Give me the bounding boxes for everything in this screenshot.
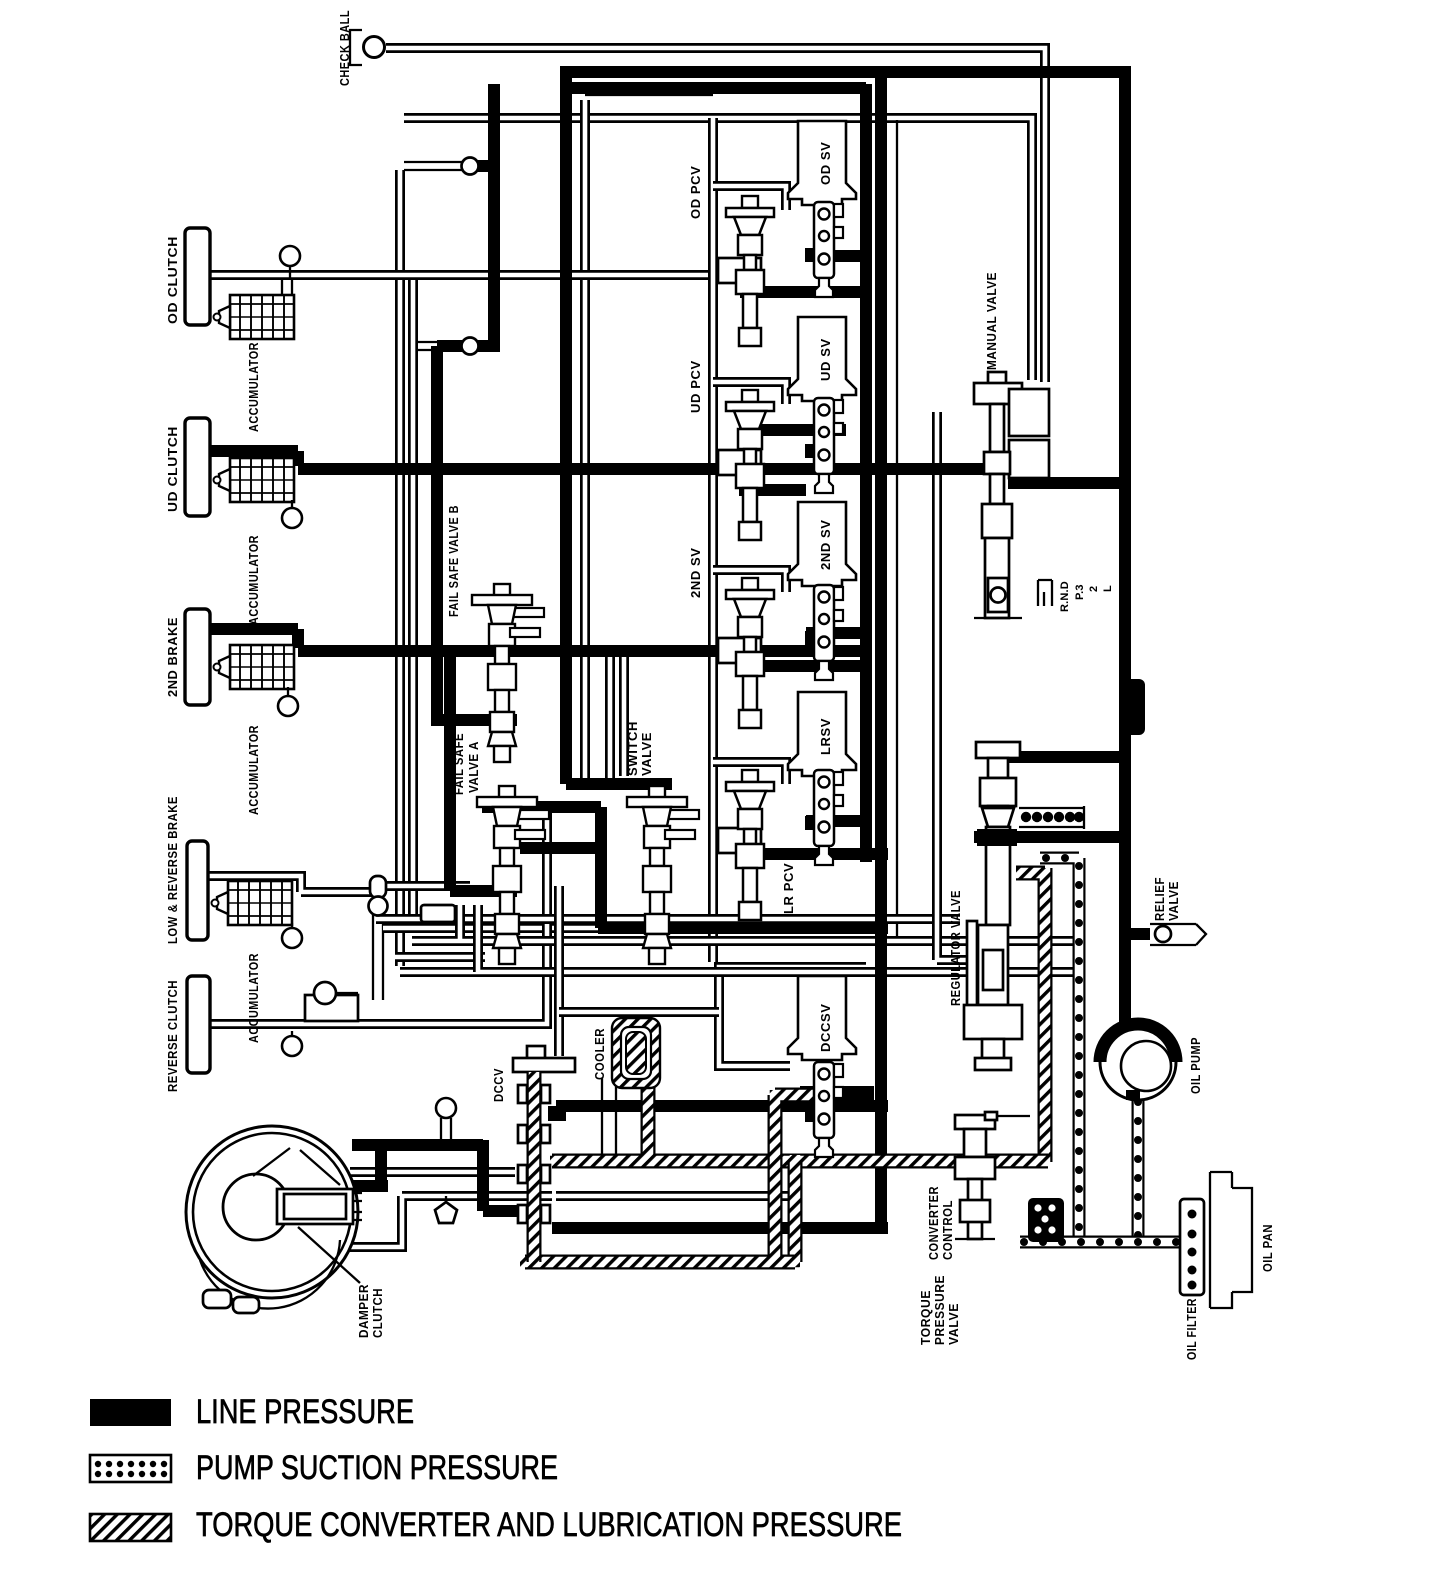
svg-text:CONVERTER: CONVERTER [926, 1186, 941, 1260]
switch valve [627, 786, 699, 964]
torque converter [186, 1126, 362, 1313]
wire: 2nd solenoid stub [806, 627, 868, 639]
clutch OD [185, 228, 210, 325]
low reverse spool under manual valve [976, 742, 1020, 830]
wire: 2ND row feed [713, 570, 786, 592]
wire: suction pump drop [1132, 1095, 1145, 1242]
svg-text:OIL FILTER: OIL FILTER [1184, 1298, 1199, 1360]
wire: fail safe A thick L [450, 885, 517, 897]
wire: switch frame b [619, 656, 629, 776]
svg-text:OIL PUMP: OIL PUMP [1188, 1037, 1203, 1094]
2nd solenoid valve 2ND SV [788, 502, 856, 586]
check valve ball OD [289, 266, 291, 280]
accumulator low reverse [212, 881, 293, 925]
svg-text:TORQUE: TORQUE [918, 1290, 933, 1345]
wire: solenoid column frame [708, 118, 718, 962]
wire: DCCSV line [556, 1100, 888, 1112]
svg-text:CLUTCH: CLUTCH [370, 1288, 385, 1338]
wire: bead line upper [404, 162, 462, 170]
check valve ball UD [291, 500, 293, 512]
svg-text:2ND BRAKE: 2ND BRAKE [165, 617, 180, 697]
od cell inlet box [718, 258, 761, 283]
wire: suction chamber [1028, 1198, 1064, 1242]
svg-text:VALVE: VALVE [639, 732, 654, 776]
wire: lr bead link [386, 881, 470, 891]
svg-text:2ND SV: 2ND SV [688, 547, 703, 598]
svg-text:OD CLUTCH: OD CLUTCH [165, 236, 180, 324]
wire: check ball line to manual valve [386, 48, 1045, 382]
accumulator reverse [305, 995, 358, 1021]
wire: lr branch to valve body [383, 923, 598, 933]
wire: DCCSV solenoid drop [794, 1093, 806, 1106]
svg-text:DCCV: DCCV [491, 1068, 506, 1102]
check valve ball low reverse [291, 923, 293, 930]
wire: lube bottom run [520, 1255, 800, 1270]
wire: mid trunk A [860, 84, 872, 862]
check ball [350, 30, 362, 65]
wire: OD pcv stub [740, 286, 868, 298]
2nd cell inlet box [718, 638, 761, 663]
wire: regulator riser [991, 795, 1003, 834]
wire: vessel interior line [556, 1191, 788, 1201]
wire: left vertical pipe pair P1 [400, 170, 625, 972]
svg-text:UD SV: UD SV [818, 338, 833, 381]
svg-text:ACCUMULATOR: ACCUMULATOR [246, 342, 261, 432]
svg-text:2: 2 [1088, 586, 1100, 592]
wire: mid trunk B [875, 72, 887, 862]
svg-text:LOW & REVERSE BRAKE: LOW & REVERSE BRAKE [165, 796, 180, 944]
wire: UD row feed [713, 382, 786, 404]
wire: converter nose link [346, 1145, 388, 1186]
wire: OD solenoid stub [806, 250, 868, 262]
bead junction lower [462, 338, 479, 355]
fail safe valve A [477, 786, 549, 964]
svg-text:LINE PRESSURE: LINE PRESSURE [196, 1393, 414, 1431]
check valve ball 2ND [287, 687, 289, 698]
ud pcv valve [726, 390, 774, 540]
wire: regulator feed [974, 831, 1131, 843]
wire: od cell top link [585, 94, 713, 96]
svg-text:VALVE A: VALVE A [466, 741, 481, 793]
accumulator UD [214, 458, 295, 502]
svg-text:R.N.D: R.N.D [1059, 581, 1071, 612]
svg-text:UD CLUTCH: UD CLUTCH [165, 426, 180, 512]
svg-text:MANUAL VALVE: MANUAL VALVE [984, 272, 999, 370]
wire: relief valve stub [1131, 928, 1150, 940]
oil pump [1100, 1024, 1176, 1100]
svg-text:L: L [1102, 585, 1114, 592]
legend: torque converter swatch [90, 1514, 171, 1541]
svg-text:FAIL SAFE: FAIL SAFE [451, 733, 466, 795]
svg-text:2ND SV: 2ND SV [818, 519, 833, 570]
svg-text:FAIL SAFE VALVE B: FAIL SAFE VALVE B [446, 505, 461, 617]
svg-text:P.3: P.3 [1074, 584, 1086, 600]
small piece left of fail safe A [421, 905, 455, 922]
oil filter [1180, 1199, 1204, 1295]
wire: reverse clutch line [208, 804, 547, 1024]
svg-text:RELIEF: RELIEF [1152, 877, 1167, 921]
svg-text:ACCUMULATOR: ACCUMULATOR [246, 535, 261, 625]
accumulator OD [214, 295, 295, 339]
wire: 2nd brake line pressure run [298, 645, 868, 657]
wire: switch frame a [605, 656, 615, 784]
svg-text:CONTROL: CONTROL [940, 1200, 955, 1260]
wire: trunk sleeve [1119, 679, 1145, 735]
wire: regulator to lube elbow [1016, 868, 1045, 1162]
wire: LR solenoid stub [806, 815, 868, 827]
wire: suction from regulator [1040, 855, 1079, 1242]
check valve ball reverse [291, 1031, 293, 1038]
svg-text:REGULATOR VALVE: REGULATOR VALVE [948, 890, 963, 1006]
wire: x450 riser [444, 651, 456, 891]
damper clutch label + leader [298, 1227, 360, 1283]
wire: top frame pair [404, 118, 1032, 380]
shift gate glyph [1038, 580, 1052, 606]
ud cell inlet box [718, 450, 761, 475]
wire: mid trunk bottom elbow [552, 1222, 888, 1234]
svg-text:COOLER: COOLER [592, 1028, 607, 1080]
wire: OD row feed [713, 186, 786, 210]
wire: DCCSV row feed [719, 967, 866, 1066]
svg-text:OD SV: OD SV [818, 142, 833, 185]
svg-text:OIL PAN: OIL PAN [1260, 1224, 1275, 1272]
clutch 2ND [185, 609, 210, 705]
converter control valve [955, 1112, 1030, 1239]
wire: LR pcv line [740, 848, 888, 860]
wire: bus line B [478, 905, 1085, 972]
svg-text:ACCUMULATOR: ACCUMULATOR [246, 953, 261, 1043]
wire: lube main horizontal [550, 1154, 1048, 1169]
regulator top block [977, 829, 1017, 846]
svg-text:LRSV: LRSV [818, 718, 833, 755]
legend: pump suction swatch [90, 1455, 171, 1482]
lr pcv valve [726, 770, 774, 920]
wire: valve body edge line [896, 120, 898, 940]
2nd pcv valve [726, 578, 774, 728]
wire: UD clutch thick connector [209, 451, 298, 466]
wire: bus line A0 [376, 914, 960, 924]
wire: low reverse brake line [208, 876, 372, 892]
svg-text:UD PCV: UD PCV [688, 360, 703, 413]
svg-text:LR PCV: LR PCV [781, 863, 796, 914]
wire: bus line A1 [395, 952, 485, 962]
oil pan [1210, 1172, 1252, 1308]
wire: mid thin pair [580, 100, 590, 778]
wire: converter thick line [352, 1140, 518, 1211]
wire: manual valve upper output [1008, 477, 1122, 489]
bead junction upper [462, 158, 479, 175]
wire: UD solenoid stub [739, 424, 846, 436]
dccsv solenoid valve [788, 976, 856, 1060]
wire: switch valve top line [566, 778, 672, 790]
svg-text:VALVE: VALVE [946, 1303, 961, 1345]
wire: fail safe A upper jog [431, 714, 517, 726]
wire: switch valve bottom line [482, 807, 888, 928]
wire: converter upper pipe [350, 1167, 515, 1177]
wire: od accumulator stub [282, 280, 292, 296]
lr cell inlet box [718, 828, 761, 853]
wire: top main line pressure [560, 66, 1125, 78]
wire: cooler drop [641, 1075, 656, 1158]
wire: bead line lower [417, 342, 462, 350]
svg-text:CHECK BALL: CHECK BALL [337, 10, 352, 86]
wire: cooler link [602, 1078, 616, 1158]
wire: manual valve left frame [937, 412, 975, 960]
wire: bead thick stubs [437, 166, 496, 346]
lr solenoid valve LRSV [788, 692, 856, 776]
legend: line pressure swatch [90, 1399, 171, 1426]
wire: converter lower pipe [340, 1196, 552, 1247]
wire: manual valve lower output [1005, 751, 1122, 763]
lr junction bead lower [369, 897, 388, 916]
wire: suction bottom run to filter [1016, 1236, 1186, 1249]
wire: lr junction vertical [373, 893, 383, 1000]
svg-text:OD PCV: OD PCV [688, 166, 703, 219]
relief valve [1150, 924, 1206, 945]
wire: vessel right wall [788, 1155, 803, 1262]
od pcv valve [726, 196, 774, 346]
wire: left vertical pipe pair P2 [408, 277, 418, 925]
pentagon ball under pipe [445, 1196, 447, 1202]
wire: dccsv lube drop [775, 1090, 818, 1258]
svg-text:ACCUMULATOR: ACCUMULATOR [246, 725, 261, 815]
wire: LR row feed [713, 762, 786, 784]
wire: 2nd clutch thick connector [209, 629, 298, 648]
clutch low reverse [187, 841, 208, 940]
svg-text:TORQUE CONVERTER AND LUBRICATI: TORQUE CONVERTER AND LUBRICATION PRESSUR… [196, 1506, 902, 1544]
ball stem valve on converter line [441, 1118, 451, 1140]
wire: right trunk V_right [1119, 66, 1131, 1022]
wire: x437 trunk [431, 346, 443, 716]
wire: V1 stub trunk [488, 84, 500, 352]
clutch reverse [187, 976, 210, 1073]
accumulator 2ND [214, 645, 295, 689]
ud solenoid valve UD SV [788, 317, 856, 401]
svg-text:REVERSE CLUTCH: REVERSE CLUTCH [165, 980, 180, 1092]
fail safe valve B [472, 584, 544, 762]
wire: V2 trunk [560, 68, 572, 784]
svg-text:SWITCH: SWITCH [625, 721, 640, 776]
wire: inner top line [566, 82, 866, 94]
svg-text:PUMP SUCTION PRESSURE: PUMP SUCTION PRESSURE [196, 1449, 558, 1487]
od solenoid valve OD SV [788, 121, 856, 205]
wire: UD line pressure run [298, 463, 988, 475]
clutch UD [185, 418, 210, 516]
svg-text:VALVE: VALVE [1166, 881, 1181, 921]
svg-text:DCCSV: DCCSV [818, 1003, 833, 1052]
lr junction bead upper [370, 876, 386, 898]
spring with dots [1019, 806, 1084, 829]
svg-text:DAMPER: DAMPER [356, 1284, 371, 1338]
wire: OD clutch line [209, 270, 740, 280]
svg-text:PRESSURE: PRESSURE [932, 1275, 947, 1345]
wire: dccv to dccsv link [559, 1007, 719, 1017]
wire: bus line A [412, 905, 1085, 941]
wire: dccv riser [554, 886, 564, 1056]
